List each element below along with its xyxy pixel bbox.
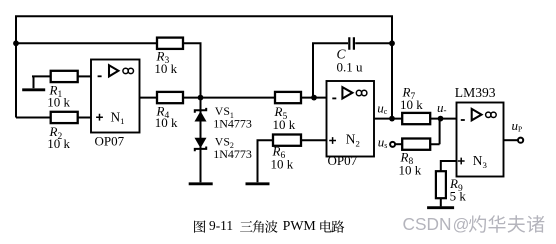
svg-text:CSDN: CSDN: [403, 214, 452, 234]
svg-text:5 k: 5 k: [450, 189, 467, 204]
svg-text:OP07: OP07: [95, 134, 125, 149]
svg-text:10 k: 10 k: [155, 115, 178, 130]
svg-text:PWM: PWM: [283, 219, 316, 234]
svg-text:9-11: 9-11: [209, 218, 233, 233]
svg-text:@: @: [453, 216, 470, 234]
svg-text:0.1 u: 0.1 u: [337, 59, 364, 74]
svg-text:10 k: 10 k: [399, 163, 422, 178]
svg-text:10 k: 10 k: [400, 97, 423, 112]
svg-text:OP07: OP07: [328, 153, 358, 168]
svg-text:1N4773: 1N4773: [213, 147, 252, 161]
svg-text:10 k: 10 k: [271, 157, 294, 172]
svg-text:LM393: LM393: [455, 85, 496, 100]
svg-text:10 k: 10 k: [47, 136, 70, 151]
svg-text:10 k: 10 k: [273, 117, 296, 132]
svg-text:10 k: 10 k: [47, 94, 70, 109]
svg-text:10 k: 10 k: [154, 61, 177, 76]
svg-text:1N4773: 1N4773: [213, 116, 252, 130]
